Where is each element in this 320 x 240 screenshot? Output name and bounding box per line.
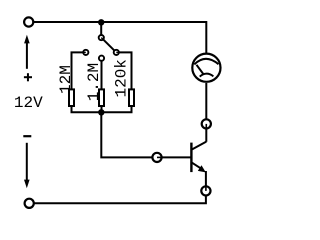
junction node A (top rail to switch) (98, 19, 104, 25)
wire emitter pin to bottom rail (35, 196, 206, 203)
battery polarity arrow up (24, 35, 30, 69)
transistor Q1 collector lead (191, 142, 206, 150)
wire base pin to transistor base (162, 156, 192, 158)
battery minus sign (23, 135, 31, 137)
resistor R2 body (99, 89, 104, 106)
battery polarity arrow down (24, 143, 30, 188)
wire R1 bottom stub (71, 106, 73, 112)
meter M1 pivot arc (200, 74, 214, 77)
svg-text:12V: 12V (14, 94, 43, 112)
pin circle collector stub (205, 124, 207, 129)
pin circle emitter (201, 186, 210, 195)
switch SW1 contact 1 stub (82, 51, 86, 53)
wire left contact to R1 top (72, 52, 84, 89)
svg-text:120k: 120k (112, 59, 130, 97)
svg-text:1.2M: 1.2M (85, 63, 103, 101)
switch SW1 contact 2 (1.2M) (99, 56, 104, 61)
pin circle emitter stub (205, 185, 207, 191)
transistor Q1 base bar (190, 143, 192, 173)
wire switch pole feed (100, 22, 102, 36)
meter M1 scale arc (194, 59, 218, 65)
wire top rail from + terminal to meter branch (34, 21, 207, 23)
junction node B (resistor bus to base) (98, 109, 104, 115)
wire right contact to R3 top (119, 52, 132, 89)
wire R3 bottom stub (131, 106, 133, 112)
pin circle base (152, 153, 161, 162)
pin circle base stub (157, 156, 162, 158)
transistor Q1 emitter lead (191, 162, 203, 170)
meter M1 needle (197, 65, 204, 74)
meter M1 body (192, 54, 220, 82)
transistor Q1 emitter arrow (198, 165, 206, 172)
switch SW1 pole circle (99, 35, 104, 40)
wire collector pin to meter (205, 83, 207, 119)
pin circle collector (202, 119, 211, 128)
wire collector vertical (205, 129, 207, 142)
svg-text:12M: 12M (57, 65, 75, 94)
switch SW1 contact 3 stub (116, 51, 120, 53)
switch SW1 contact 1 (12M) (83, 50, 88, 55)
wire node B to transistor base pin (101, 112, 152, 157)
battery plus sign (24, 73, 32, 81)
switch SW1 pole stub (101, 38, 104, 41)
wire resistor bottom bus (71, 111, 133, 113)
wire emitter vertical (205, 171, 207, 186)
resistor R3 body (129, 89, 134, 106)
switch SW1 wiper (101, 38, 116, 53)
terminal battery - (bottom left) (25, 199, 34, 208)
wire right rail corner down to meter top (205, 21, 207, 53)
wire R2 bottom stub (101, 106, 103, 112)
switch SW1 contact 3 (120k) (114, 50, 119, 55)
terminal battery + (top left) (24, 17, 33, 26)
wire middle contact to R2 top (101, 61, 103, 90)
resistor R1 body (69, 89, 74, 106)
